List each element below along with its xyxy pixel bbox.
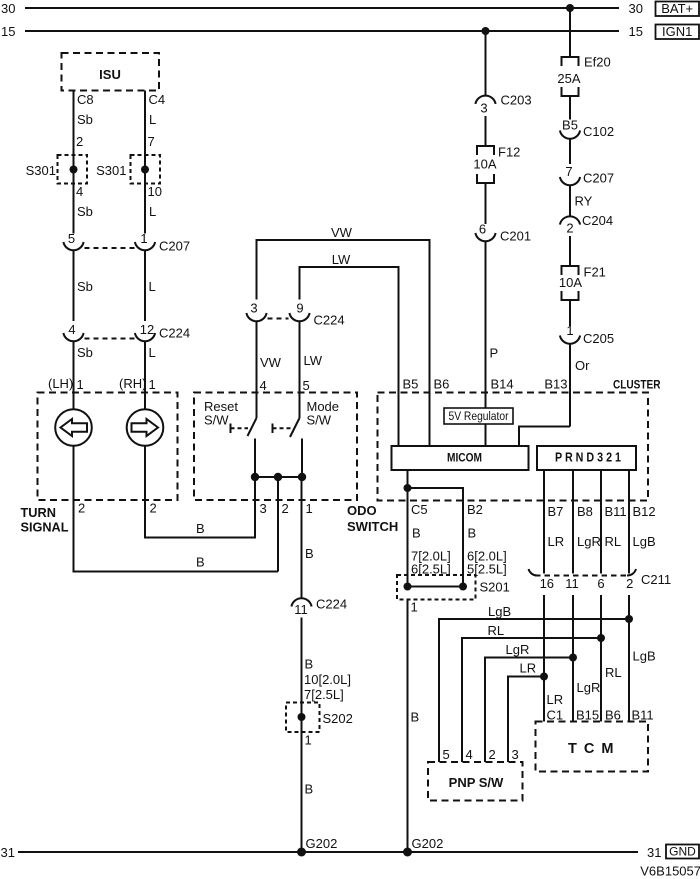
svg-text:SWITCH: SWITCH: [347, 519, 398, 534]
svg-text:B: B: [196, 555, 205, 570]
svg-text:2: 2: [626, 576, 633, 591]
svg-text:11: 11: [565, 576, 579, 591]
svg-text:L: L: [149, 204, 156, 219]
svg-text:C204: C204: [582, 213, 613, 228]
svg-text:V6B15057: V6B15057: [640, 864, 700, 879]
svg-text:S/W: S/W: [204, 413, 229, 428]
svg-text:31: 31: [647, 845, 661, 860]
svg-text:F12: F12: [498, 145, 520, 160]
svg-text:MICOM: MICOM: [447, 450, 482, 464]
svg-text:10: 10: [148, 184, 162, 199]
svg-text:12: 12: [140, 322, 154, 337]
svg-text:(RH): (RH): [119, 376, 146, 391]
svg-text:S301: S301: [26, 163, 56, 178]
svg-text:LR: LR: [548, 534, 565, 549]
svg-text:LgB: LgB: [488, 604, 511, 619]
svg-text:T C M: T C M: [568, 741, 615, 757]
svg-text:C1: C1: [547, 708, 564, 723]
svg-text:B5: B5: [562, 118, 578, 133]
svg-text:C205: C205: [583, 331, 614, 346]
svg-text:C201: C201: [500, 229, 531, 244]
svg-text:11: 11: [294, 602, 308, 617]
svg-text:B2: B2: [467, 502, 483, 517]
svg-text:LgB: LgB: [633, 649, 656, 664]
svg-text:1: 1: [140, 231, 147, 246]
svg-text:C224: C224: [314, 313, 345, 328]
svg-text:CLUSTER: CLUSTER: [613, 377, 661, 391]
svg-text:B: B: [411, 710, 420, 725]
svg-text:VW: VW: [331, 225, 353, 240]
svg-text:C207: C207: [159, 239, 190, 254]
svg-text:(LH): (LH): [48, 376, 73, 391]
svg-text:B11: B11: [632, 708, 654, 723]
svg-text:5: 5: [303, 378, 310, 393]
svg-text:30: 30: [629, 1, 643, 16]
svg-text:4: 4: [260, 378, 267, 393]
svg-text:B6: B6: [434, 377, 450, 392]
svg-text:3: 3: [512, 747, 519, 762]
svg-text:LgR: LgR: [506, 642, 530, 657]
svg-text:F21: F21: [584, 265, 606, 280]
svg-text:5: 5: [443, 747, 450, 762]
svg-text:Sb: Sb: [77, 204, 93, 219]
svg-text:ODO: ODO: [347, 503, 377, 518]
svg-text:B: B: [412, 526, 421, 541]
svg-text:S201: S201: [480, 580, 510, 595]
svg-text:GND: GND: [669, 845, 696, 859]
svg-text:4: 4: [466, 747, 473, 762]
svg-text:4: 4: [68, 322, 75, 337]
svg-text:1: 1: [77, 377, 84, 392]
svg-text:15: 15: [1, 24, 15, 39]
svg-text:1: 1: [306, 501, 313, 516]
svg-text:Sb: Sb: [77, 112, 93, 127]
svg-text:Or: Or: [575, 358, 590, 373]
svg-text:5[2.5L]: 5[2.5L]: [467, 562, 507, 577]
svg-text:VW: VW: [260, 355, 282, 370]
svg-text:B13: B13: [544, 377, 567, 392]
svg-text:S301: S301: [96, 163, 126, 178]
svg-text:B: B: [305, 782, 314, 797]
svg-text:25A: 25A: [557, 71, 580, 86]
svg-text:Sb: Sb: [77, 345, 93, 360]
svg-text:C203: C203: [501, 93, 532, 108]
svg-text:2: 2: [150, 501, 157, 516]
svg-text:31: 31: [1, 845, 15, 860]
svg-text:2: 2: [282, 501, 289, 516]
svg-text:6: 6: [479, 222, 486, 237]
svg-text:10A: 10A: [559, 275, 582, 290]
svg-text:1: 1: [411, 600, 418, 615]
svg-text:6: 6: [597, 576, 604, 591]
svg-text:LgB: LgB: [633, 534, 656, 549]
svg-text:L: L: [149, 345, 156, 360]
svg-text:10A: 10A: [473, 157, 496, 172]
svg-text:1: 1: [566, 323, 573, 338]
svg-text:B14: B14: [491, 377, 514, 392]
svg-text:B8: B8: [577, 504, 593, 519]
svg-text:TURN: TURN: [21, 505, 57, 520]
svg-text:10[2.0L]: 10[2.0L]: [304, 672, 351, 687]
svg-text:LW: LW: [304, 353, 323, 368]
svg-text:SIGNAL: SIGNAL: [21, 520, 69, 535]
svg-text:B7: B7: [548, 504, 564, 519]
svg-text:7[2.5L]: 7[2.5L]: [304, 687, 344, 702]
svg-text:P: P: [490, 346, 499, 361]
svg-text:L: L: [149, 112, 156, 127]
svg-text:LgR: LgR: [577, 680, 601, 695]
svg-text:7: 7: [148, 134, 155, 149]
svg-text:IGN1: IGN1: [662, 24, 692, 39]
svg-text:B: B: [305, 546, 314, 561]
svg-text:C5: C5: [411, 502, 428, 517]
svg-text:PNP S/W: PNP S/W: [449, 775, 504, 790]
svg-text:C224: C224: [159, 326, 190, 341]
svg-text:B6: B6: [605, 708, 621, 723]
svg-text:3: 3: [250, 301, 257, 316]
svg-text:G202: G202: [412, 836, 444, 851]
svg-text:9: 9: [296, 301, 303, 316]
svg-text:B: B: [305, 657, 314, 672]
svg-text:C4: C4: [149, 92, 166, 107]
svg-text:LR: LR: [547, 692, 564, 707]
svg-text:BAT+: BAT+: [661, 1, 693, 16]
svg-text:G202: G202: [306, 836, 338, 851]
svg-text:RY: RY: [575, 194, 593, 209]
svg-text:Ef20: Ef20: [584, 55, 611, 70]
svg-text:B5: B5: [403, 377, 419, 392]
svg-text:LgR: LgR: [577, 534, 601, 549]
svg-text:LW: LW: [332, 252, 351, 267]
svg-text:B15: B15: [576, 708, 599, 723]
svg-text:7: 7: [565, 164, 572, 179]
svg-text:B12: B12: [633, 504, 656, 519]
svg-text:Sb: Sb: [77, 279, 93, 294]
svg-text:RL: RL: [488, 623, 505, 638]
svg-text:L: L: [149, 279, 156, 294]
svg-text:LR: LR: [520, 661, 537, 676]
svg-text:S/W: S/W: [307, 413, 332, 428]
svg-text:5V Regulator: 5V Regulator: [449, 409, 509, 423]
svg-text:C8: C8: [77, 92, 94, 107]
svg-text:C224: C224: [316, 597, 347, 612]
svg-text:C211: C211: [641, 572, 671, 587]
svg-text:B11: B11: [605, 504, 627, 519]
svg-text:5: 5: [68, 231, 75, 246]
svg-text:P R N D 3 2 1: P R N D 3 2 1: [555, 451, 621, 465]
svg-text:B: B: [196, 521, 205, 536]
svg-text:3: 3: [260, 501, 267, 516]
svg-text:16: 16: [540, 576, 554, 591]
svg-text:C207: C207: [583, 171, 614, 186]
svg-text:1: 1: [305, 733, 312, 748]
svg-text:15: 15: [629, 24, 643, 39]
svg-text:2: 2: [78, 501, 85, 516]
svg-text:RL: RL: [605, 665, 622, 680]
svg-text:3: 3: [480, 101, 487, 116]
svg-text:4: 4: [76, 184, 83, 199]
svg-text:30: 30: [1, 1, 15, 16]
svg-text:C102: C102: [583, 124, 614, 139]
svg-text:RL: RL: [605, 534, 622, 549]
svg-text:2: 2: [566, 221, 573, 236]
svg-text:2: 2: [76, 134, 83, 149]
svg-text:ISU: ISU: [99, 67, 121, 82]
svg-text:S202: S202: [323, 711, 353, 726]
svg-text:2: 2: [489, 747, 496, 762]
svg-text:6[2.5L]: 6[2.5L]: [411, 562, 451, 577]
svg-text:1: 1: [149, 377, 156, 392]
svg-text:B: B: [468, 526, 477, 541]
